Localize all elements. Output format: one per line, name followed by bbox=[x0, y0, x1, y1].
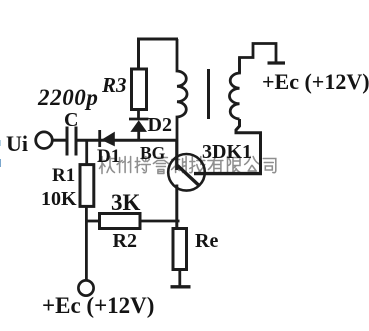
ground bbox=[171, 285, 191, 288]
wire: R3 top lead bbox=[137, 39, 140, 70]
watermark 杭州将睿科技有限公司 bbox=[99, 157, 276, 174]
wire: Re to ground bbox=[178, 270, 181, 287]
diode D2 bbox=[129, 119, 149, 142]
terminal +Ec bottom bbox=[78, 280, 93, 295]
wire: junction down to R1 bbox=[85, 140, 88, 165]
wire: collector horizontal bbox=[194, 172, 262, 175]
label 3K bbox=[111, 191, 140, 214]
label 3DK1 bbox=[202, 142, 252, 162]
transistor BG 3DK1 bbox=[168, 140, 205, 229]
label Ui bbox=[6, 133, 28, 155]
wire: Ui to capacitor C bbox=[53, 139, 66, 142]
diode D1 bbox=[100, 130, 115, 147]
inductor L1 primary winding bbox=[177, 39, 187, 140]
capacitor C plates bbox=[67, 127, 76, 156]
label D1 bbox=[97, 147, 120, 166]
wire: R1 bottom column to terminal bbox=[85, 206, 88, 280]
wire: secondary bottom to collector loop bbox=[236, 119, 261, 174]
resistor R2 bbox=[100, 214, 141, 229]
terminal bar +Ec top bbox=[268, 61, 286, 64]
label BG bbox=[140, 145, 165, 163]
label D2 bbox=[148, 115, 172, 135]
wire: secondary top zigzag to +Ec terminal bbox=[240, 44, 277, 74]
label 2200p bbox=[38, 86, 99, 109]
inductor L2 secondary winding bbox=[229, 58, 239, 120]
resistor R1 bbox=[80, 165, 94, 207]
wire: R3 to D2 bbox=[137, 110, 140, 120]
terminal Ui bbox=[36, 132, 53, 149]
blue edge tick bbox=[0, 159, 1, 167]
label C bbox=[64, 110, 78, 130]
label 10K bbox=[41, 189, 77, 209]
resistor Re bbox=[173, 229, 187, 270]
label +Ec (+12V) top bbox=[262, 71, 369, 93]
label R2 bbox=[113, 231, 137, 251]
label R1 bbox=[52, 166, 75, 185]
wire: column to R2 bbox=[86, 220, 99, 223]
label +Ec (+12V) bottom bbox=[42, 294, 154, 317]
transformer core bbox=[207, 69, 210, 119]
wire: top horizontal R3/primary bbox=[137, 38, 178, 41]
wire: main horizontal node (C to base corner) bbox=[78, 139, 179, 142]
label R3 bbox=[102, 75, 127, 96]
label Re bbox=[195, 231, 218, 251]
resistor R3 bbox=[132, 69, 147, 110]
wire: R2 to emitter column bbox=[140, 220, 180, 223]
